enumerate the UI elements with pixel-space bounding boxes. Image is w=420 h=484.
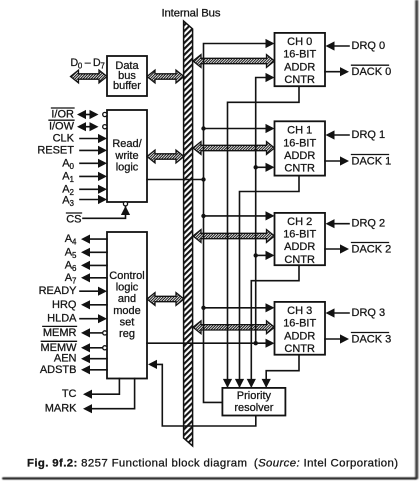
svg-text:DACK 1: DACK 1 [352,155,392,167]
wire fat arrow bus to CH2 [193,230,275,243]
wire read/write logic to enable line [147,179,204,181]
svg-text:Fig. 9f.2: 8257 Functional blo: Fig. 9f.2: 8257 Functional block diagram… [27,458,398,470]
svg-text:CS: CS [66,214,81,226]
svg-text:CLK: CLK [53,133,75,145]
block data bus buffer [107,56,147,96]
wire feed branch to CH1 [254,163,275,172]
svg-text:Read/: Read/ [112,138,142,150]
signal DACK 3 [325,333,391,346]
svg-text:RESET: RESET [37,144,74,156]
svg-text:D0 – D7: D0 – D7 [71,57,105,71]
svg-text:CH 2: CH 2 [287,216,312,228]
svg-text:DACK 2: DACK 2 [352,243,392,255]
signal MEMR label [43,326,77,339]
signal TC [62,379,120,401]
block CH2 16-bit addr cntr [275,213,326,266]
svg-text:write: write [114,150,138,162]
page shadow right edge [415,0,418,479]
block control logic and mode set reg [107,232,147,379]
svg-text:DACK 0: DACK 0 [352,66,392,78]
svg-text:DACK 3: DACK 3 [352,333,392,345]
svg-text:ADDR: ADDR [284,330,315,342]
svg-text:CNTR: CNTR [284,74,315,86]
block CH3 16-bit addr cntr [275,302,326,355]
svg-text:16-BIT: 16-BIT [283,137,316,149]
wire data bus fat arrow D0-D7 to buffer [71,70,108,83]
signal RESET [37,144,107,156]
signal A5 [65,246,107,259]
wire I/OW bidirectional arrow with bubble [77,122,107,131]
signal DACK 0 [325,65,391,78]
wire fat arrow bus to CH3 [193,321,275,334]
signal A1 [62,170,107,183]
wire enable branch to CH1 [201,124,274,133]
signal A4 [65,233,107,246]
svg-text:16-BIT: 16-BIT [283,49,316,61]
signal DRQ 0 [326,40,386,52]
signal A3 [62,194,107,207]
svg-text:I/OR: I/OR [51,109,74,121]
svg-text:DRQ 3: DRQ 3 [352,307,386,319]
svg-text:ADDR: ADDR [284,61,315,73]
wire CH3 output down to priority resolver [262,355,299,388]
wire CH0 output down to priority resolver [223,86,299,388]
wire priority resolver to control logic arrow [148,360,256,426]
signal AEN [54,353,107,365]
signal A6 [65,259,107,272]
node junction read/write enable [201,177,205,181]
signal HLDA [47,313,107,325]
wire fat arrow bus to read/write logic [147,150,184,163]
svg-text:Control: Control [109,270,144,282]
node junction feed control line [254,341,258,345]
signal MARK [45,379,135,415]
svg-text:TC: TC [62,388,77,400]
wire fat arrow bus to control logic [147,293,184,306]
wire feed branch to CH2 [254,251,275,260]
wire priority resolver enable line up to CH0 [204,44,267,403]
signal ADSTB [40,364,107,376]
svg-text:HLDA: HLDA [47,313,77,325]
block CH1 16-bit addr cntr [275,121,326,175]
svg-text:ADDR: ADDR [284,241,315,253]
signal A0 [62,157,107,170]
wire fat arrow bus to CH0 [193,55,275,68]
signal MEMW label [40,341,77,354]
svg-text:HRQ: HRQ [52,299,77,311]
svg-text:mode: mode [113,305,141,317]
signal A7 [65,272,107,285]
page shadow bottom edge [2,477,417,479]
svg-text:MARK: MARK [45,403,77,415]
svg-text:and: and [118,293,136,305]
svg-text:16-BIT: 16-BIT [283,229,316,241]
svg-text:logic: logic [116,162,139,174]
svg-text:set: set [120,316,135,328]
signal DACK 2 [325,243,391,256]
signal DACK 1 [325,155,391,168]
wire fat arrow bus to CH1 [193,142,275,155]
signal I/OR label [51,108,74,121]
wire counter feed line vertical [256,78,266,344]
signal READY [39,285,107,297]
svg-text:Priority: Priority [237,390,272,402]
wire CH1 output down to priority resolver [235,176,299,388]
signal HRQ [52,299,107,311]
svg-text:resolver: resolver [234,402,273,414]
signal DRQ 2 [326,218,386,230]
svg-text:READY: READY [39,285,78,297]
svg-text:buffer: buffer [113,80,141,92]
svg-text:MEMR: MEMR [43,327,77,339]
svg-text:logic: logic [116,282,139,294]
wire MEMR arrow with bubble [81,328,107,337]
wire I/OR bidirectional arrow with bubble [77,110,107,119]
wire CS to read/write logic bottom with bubble [83,202,130,219]
svg-text:CNTR: CNTR [284,254,315,266]
wire internal bus bar [184,21,193,446]
wire enable branch to CH2 [201,211,274,220]
svg-text:CH 1: CH 1 [287,125,312,137]
svg-text:ADDR: ADDR [284,150,315,162]
svg-text:DRQ 2: DRQ 2 [352,218,386,230]
svg-text:I/OW: I/OW [49,121,75,133]
block priority resolver [222,388,285,416]
svg-text:CNTR: CNTR [284,343,315,355]
wire control logic output to CH3 counter input [147,339,275,348]
wire CH2 output down to priority resolver [247,265,299,388]
svg-text:DRQ 0: DRQ 0 [352,40,386,52]
svg-text:CH 0: CH 0 [287,36,312,48]
svg-text:DRQ 1: DRQ 1 [352,129,386,141]
block CH0 16-bit addr cntr [275,33,326,86]
block read/write logic [107,110,147,202]
svg-text:Internal Bus: Internal Bus [162,8,221,20]
svg-text:reg: reg [119,328,135,340]
svg-text:CH 3: CH 3 [287,305,312,317]
wire fat arrow buffer to internal bus [147,70,184,83]
svg-text:16-BIT: 16-BIT [283,318,316,330]
signal I/OW label [49,120,75,133]
signal A2 [62,183,107,196]
signal CS label [66,213,81,226]
signal CLK [53,133,107,145]
signal DRQ 1 [326,129,386,141]
wire enable branch to CH3 [201,303,274,312]
svg-text:CNTR: CNTR [284,163,315,175]
signal DRQ 3 [326,307,386,319]
wire MEMW arrow with bubble [81,343,107,352]
svg-text:ADSTB: ADSTB [40,364,77,376]
